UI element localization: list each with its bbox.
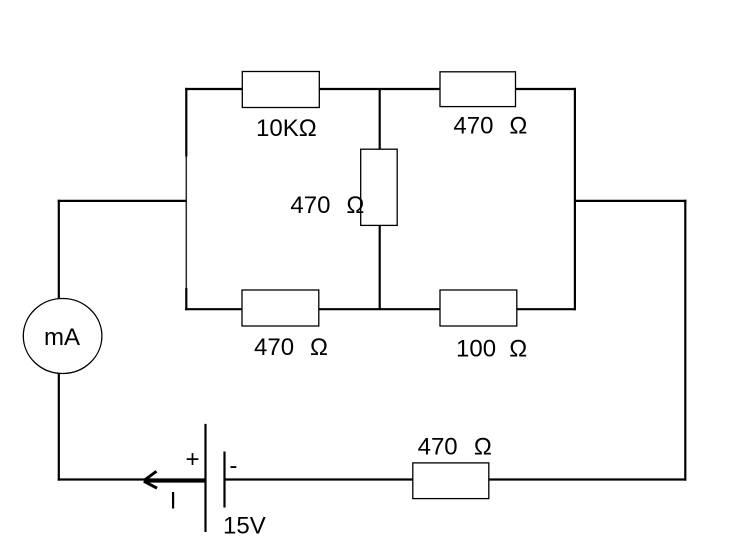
- wire top bridge horizontal: [185, 88, 576, 90]
- svg-text:470: 470: [418, 434, 458, 461]
- svg-text:Ω: Ω: [509, 112, 527, 139]
- wire right feed horizontal: [575, 200, 687, 202]
- svg-text:I: I: [170, 488, 177, 515]
- wire right outer vertical: [684, 200, 686, 481]
- wire left feed horizontal: [58, 200, 187, 202]
- current arrow I head lower barb: [144, 481, 157, 488]
- wire left bridge vertical lower segment: [185, 288, 187, 310]
- wire left outer vertical lower (ammeter to bottom): [58, 374, 60, 481]
- svg-text:Ω: Ω: [346, 192, 364, 219]
- wire left outer vertical upper (feed to ammeter): [58, 200, 60, 298]
- wire left bridge vertical upper segment: [185, 88, 187, 157]
- battery 15V negative plate (short): [223, 452, 225, 508]
- svg-text:100: 100: [456, 336, 496, 363]
- svg-text:mA: mA: [44, 324, 80, 351]
- svg-text:Ω: Ω: [474, 434, 492, 461]
- resistor 470 Ω (bottom-left of bridge): [242, 290, 319, 326]
- svg-text:470: 470: [453, 112, 493, 139]
- resistor 470 Ω (middle vertical): [361, 149, 398, 225]
- current arrow I head upper barb: [144, 471, 157, 480]
- svg-text:470: 470: [254, 334, 294, 361]
- svg-text:Ω: Ω: [509, 336, 527, 363]
- wire bottom left horizontal (to battery + plate): [58, 478, 206, 480]
- svg-text:-: -: [229, 453, 237, 480]
- wire bottom right horizontal (battery - plate to right): [225, 478, 687, 480]
- resistor 470 Ω (top-right of bridge): [440, 72, 516, 107]
- wire middle bridge vertical: [379, 89, 381, 309]
- wire bottom bridge horizontal: [185, 308, 576, 310]
- wire right bridge vertical: [574, 88, 576, 310]
- resistor 10KΩ (top-left of bridge): [242, 72, 319, 108]
- svg-text:470: 470: [290, 192, 330, 219]
- svg-text:10KΩ: 10KΩ: [256, 115, 317, 142]
- ammeter mA: [23, 299, 102, 374]
- svg-text:+: +: [186, 446, 200, 473]
- resistor 100 Ω (bottom-right of bridge): [440, 290, 517, 326]
- svg-text:15V: 15V: [223, 513, 266, 540]
- current arrow I shaft: [145, 479, 206, 482]
- resistor 470 Ω (bottom series): [413, 463, 489, 499]
- wire left bridge vertical middle segment: [185, 157, 187, 289]
- svg-text:Ω: Ω: [310, 334, 328, 361]
- battery 15V positive plate (long): [204, 424, 206, 532]
